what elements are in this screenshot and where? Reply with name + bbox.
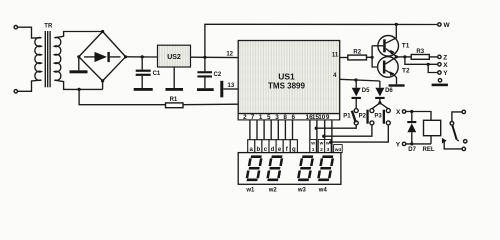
wire junction down to R1 rail [79,89,165,104]
wire digit w2 pin to display [316,120,318,153]
node bridge right [124,55,127,58]
wire secondary top to bridge [54,32,102,38]
diode D7 [407,112,416,153]
wire digit w4 pin to display [331,120,333,153]
svg-text:Y: Y [396,141,401,148]
wire scan to P3 [331,125,389,142]
node base junction [371,56,374,59]
node secondary-return junction [78,88,81,91]
wire node to R3 tap [396,56,411,58]
pushbutton P1 [343,109,358,125]
display digit w1 [245,155,263,181]
relay contact NO terminal [464,140,467,143]
ground T2 emitter [389,84,405,86]
capacitor C2 [197,57,221,88]
svg-text:d: d [271,147,275,153]
diode D6 [375,81,393,103]
label w2 box [318,140,324,154]
node C1 tap [141,55,144,58]
transformer TR core [45,31,50,87]
svg-text:P1: P1 [343,114,351,120]
wire segment b pin to display [256,120,258,140]
display digit w3 [297,155,315,181]
wire D6 to P2 [372,103,380,109]
svg-text:R2: R2 [353,49,361,55]
node D5 tap [354,78,357,81]
wire segment d pin to display [270,120,272,140]
wire Y line [406,143,431,145]
wire AC top to primary [18,27,42,38]
terminal Y relay [396,141,406,148]
labels US1 digit pins 16 15 10 9 [306,114,330,121]
svg-text:X: X [443,62,448,69]
resistor R3 [411,49,429,60]
node bridge left [77,55,80,58]
capacitor pin13 [220,81,238,98]
label segment e box [276,140,283,153]
svg-text:Y: Y [443,70,448,77]
svg-text:D5: D5 [362,88,370,94]
node X/Y tap [403,55,406,58]
svg-text:w3: w3 [297,187,307,193]
label w1 box [310,140,316,154]
svg-text:W: W [444,22,451,29]
capacitor C1 [136,57,161,88]
node scan w3/P2 [322,135,325,138]
label w3 under display [297,187,307,193]
bridge rectifier diamond [79,32,126,81]
svg-text:7: 7 [251,114,255,121]
relay contact pivot [450,122,454,126]
svg-text:w: w [319,142,324,147]
svg-text:R3: R3 [416,49,424,55]
labels US1 segment pins 2 7 1 5 3 8 6 [243,114,295,121]
terminal AC input top [14,26,17,29]
wire segment f pin to display [284,120,286,140]
transistor T2 [378,57,410,85]
svg-text:TR: TR [44,23,53,29]
transistor T1 [372,36,410,57]
display digit w2 [266,155,284,181]
diode D5 [352,80,371,109]
svg-text:X: X [396,109,401,116]
wire V+ riser and top rail to W [205,24,438,57]
terminal AC input bottom [14,90,17,93]
svg-text:TMS 3899: TMS 3899 [268,81,305,90]
ground bridge left arm [70,57,88,74]
label pin 11 [332,53,339,59]
wire R2 to base node [367,56,373,58]
wire AC bottom to primary [18,80,42,91]
display digit w4 [317,155,335,181]
label pin 4 [333,73,337,79]
terminal X relay [396,109,406,116]
label w1 under display [245,187,255,193]
wire split to Y [428,64,438,72]
ground US2 [166,88,184,91]
label segment d box [269,140,276,153]
wire US2 ground lead [173,67,175,88]
wire segment e pin to display [277,120,279,140]
svg-text:REL: REL [423,147,435,153]
node D7 bottom [410,142,413,145]
svg-text:D6: D6 [385,88,393,94]
wire R3 to Z [429,56,437,58]
relay contact arm [452,125,459,141]
label TR [44,23,53,29]
node X/Y split [427,63,430,66]
relay coil REL [423,120,441,153]
svg-text:w1: w1 [245,187,255,193]
svg-text:2: 2 [243,114,247,121]
wire pin11 to R2 [340,57,348,59]
label segment f box [283,140,290,153]
relay contact top terminal [452,110,466,121]
label pin 12 [226,52,233,58]
node bridge bottom [101,79,104,82]
node rail/T1 collector [395,23,398,26]
svg-text:1: 1 [259,114,263,121]
transformer TR secondary winding [54,37,60,80]
terminal Y [438,70,449,77]
svg-text:US1: US1 [278,72,295,82]
terminal chassis ground [432,79,448,87]
wire pin4 bus [340,79,380,81]
svg-text:5: 5 [267,114,271,121]
display module box [238,153,341,185]
terminal Z [438,54,448,61]
ground C1 [134,88,153,91]
wire bridge output to US2 [126,56,158,58]
IC US1 TMS 3899 [238,41,340,120]
wire scan to P2 [324,125,372,137]
wire digit w1 pin to display [309,120,311,153]
svg-text:g: g [292,147,296,153]
svg-text:b: b [256,147,260,153]
ground C2 [197,88,214,91]
label segment a box [248,140,255,153]
regulator US2 [158,45,191,67]
svg-text:w: w [310,142,315,147]
wire digit w3 pin to display [324,120,326,153]
pushbutton P2 [359,109,374,125]
wire base bus T1 T2 [372,46,383,67]
label pin 13 [228,83,235,89]
svg-text:11: 11 [332,53,339,59]
terminal X [438,62,449,69]
resistor R2 [348,49,367,59]
node T1 emitter / T2 collector [395,55,398,58]
label segment g box [290,140,297,153]
svg-text:T1: T1 [402,43,410,50]
svg-text:T2: T2 [402,67,410,74]
label w2 under display [268,187,278,193]
relay actuator arrow [442,138,462,149]
wire scan to P1 [316,125,356,129]
label segment c box [262,140,269,153]
resistor R1 [166,97,184,108]
node scan w2/P1 [315,127,318,130]
wire bridge bottom stub [102,81,104,90]
wire tap to X [405,57,438,64]
svg-text:13: 13 [228,83,235,89]
svg-text:D7: D7 [408,147,416,153]
wire US2 output to US1 pin12 [191,56,239,58]
svg-text:R1: R1 [170,97,178,103]
node scan w4/P3 [329,141,332,144]
wire D6 to P3 [380,103,388,109]
svg-text:Z: Z [443,54,447,61]
svg-text:12: 12 [226,52,233,58]
svg-text:P2: P2 [359,114,367,120]
terminal W [438,22,451,29]
node D7 top [410,110,413,113]
wire segment g pin to display [292,120,294,140]
wire R1 to US1 [183,103,238,106]
node bridge top [101,30,104,33]
svg-text:US2: US2 [167,54,181,61]
node C2 tap [203,56,206,59]
svg-text:P3: P3 [374,114,382,120]
node D6 split [378,101,381,104]
svg-text:w4: w4 [318,187,328,193]
svg-text:9: 9 [326,114,330,121]
wire segment c pin to display [263,120,265,140]
pushbutton P3 [374,109,390,125]
label w3 box [325,140,331,154]
wire T1 collector to rail [395,24,397,38]
wire X to relay [406,112,431,121]
svg-text:C2: C2 [214,72,222,78]
svg-text:w2: w2 [268,187,278,193]
label segment b box [255,140,262,153]
label w4 under display [318,187,328,193]
relay contact bottom terminal [462,147,465,150]
svg-text:C1: C1 [153,71,161,77]
wire segment a pin to display [249,120,251,140]
transformer TR primary winding [35,37,41,80]
label w4 box [334,145,343,153]
wire secondary bottom [54,80,102,89]
